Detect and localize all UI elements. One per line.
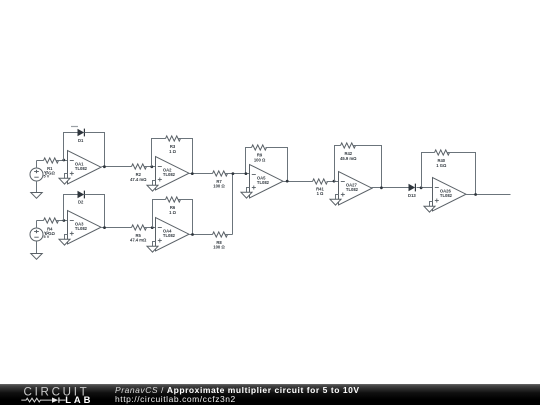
ground below V1 [31, 193, 42, 199]
label R1 value [45, 166, 56, 176]
svg-text:1 GΩ: 1 GΩ [436, 163, 447, 168]
svg-text:100 Ω: 100 Ω [254, 157, 266, 162]
wire R5 to OA4 inverting input [145, 227, 156, 229]
wire R8 branch up to summing node [232, 174, 234, 235]
wire V1 to R1 [37, 160, 44, 162]
resistor R42 [341, 143, 356, 148]
junction OA1 output and D1 feedback [103, 165, 106, 168]
label R8 value [213, 240, 225, 250]
wire R9 to OA5 output [266, 148, 288, 182]
wire V2 to R4 [37, 220, 44, 222]
label R4 value [45, 226, 56, 236]
svg-text:5 V: 5 V [44, 175, 50, 179]
label R9 value [254, 153, 266, 163]
resistor R4 [44, 218, 59, 223]
wire V2 top lead [36, 221, 38, 229]
wire V1 bottom lead [36, 181, 38, 193]
ground at OA26 non-inverting input [424, 202, 435, 213]
junction summing node R7 R8 [232, 172, 235, 175]
svg-text:TL082: TL082 [75, 226, 88, 231]
junction node at OA27 inverting input [333, 180, 336, 183]
voltage source V2 [30, 228, 43, 241]
resistor R2 [132, 164, 147, 169]
wire R7 to OA5 inverting input [226, 173, 250, 175]
wire R42 to OA27 output [354, 146, 382, 188]
wire R41 to OA27 inverting input [327, 181, 339, 183]
svg-text:1 Ω: 1 Ω [317, 191, 324, 196]
svg-text:D13: D13 [408, 193, 416, 198]
resistor R8 [213, 232, 228, 237]
wire OA27 output to D13 [372, 187, 409, 189]
wire OA2 output to R7 [189, 173, 213, 175]
ground at OA2 non-inverting input [147, 181, 158, 192]
junction OA4 output and R6 feedback [191, 233, 194, 236]
svg-text:100 Ω: 100 Ω [213, 245, 225, 250]
label R2 value [130, 172, 147, 182]
label R40 value [436, 158, 447, 168]
svg-text:1 Ω: 1 Ω [169, 210, 176, 215]
wire R8 to vertical join [226, 234, 233, 236]
svg-text:1 Ω: 1 Ω [169, 149, 176, 154]
label D1 [78, 138, 84, 143]
wire OA2 feedback left to R3 [152, 139, 166, 167]
label R7 value [213, 179, 225, 189]
label D13 [408, 193, 416, 198]
op-amp OA5 TL082 [250, 165, 284, 198]
junction node at OA4 inverting input [151, 226, 154, 229]
label D2 [78, 200, 84, 205]
resistor R7 [213, 171, 228, 176]
diode D2 [78, 191, 85, 199]
ground at OA5 non-inverting input [241, 188, 252, 199]
svg-text:D2: D2 [78, 200, 84, 205]
junction node at OA3 inverting input [63, 219, 66, 222]
svg-text:LAB: LAB [65, 394, 93, 405]
logo diode [52, 398, 58, 403]
wire OA3 output to R5 [102, 227, 132, 229]
svg-text:TL082: TL082 [163, 233, 176, 238]
wire D1 cathode to OA1 output [85, 133, 105, 167]
resistor R1 [44, 158, 59, 163]
resistor R3 [166, 136, 181, 141]
wire R2 to OA2 inverting input [145, 166, 156, 168]
logo wire with resistor [21, 398, 52, 402]
op-amp OA27 TL082 [339, 172, 373, 205]
wire OA4 output to R8 [190, 234, 213, 236]
resistor R6 [166, 197, 181, 202]
svg-text:D1: D1 [78, 138, 84, 143]
label R42 value [340, 151, 357, 161]
wire OA4 feedback left to R6 [153, 200, 166, 228]
label R6 value [169, 205, 176, 215]
wire OA26 output [466, 194, 511, 196]
ground below V2 [31, 254, 42, 260]
wire R3 to OA2 output [179, 139, 193, 174]
svg-text:100 Ω: 100 Ω [213, 184, 225, 189]
svg-text:TL082: TL082 [346, 187, 359, 192]
label V2 value [44, 231, 50, 239]
wire OA3 feedback left to D2 anode [64, 195, 78, 221]
voltage source V1 [30, 168, 43, 181]
dash marker above D1 [71, 126, 78, 128]
footer title line [115, 385, 360, 395]
CircuitLab logo [0, 384, 100, 405]
junction node at OA2 inverting input [150, 165, 153, 168]
wire OA1 feedback left to D1 anode [64, 133, 78, 161]
wire R6 to OA4 output [179, 200, 193, 235]
wire OA1 output to R2 [102, 166, 132, 168]
svg-text:TL082: TL082 [163, 172, 176, 177]
resistor R40 [435, 150, 450, 155]
wire R1 to OA1 inverting input [57, 160, 68, 162]
op-amp OA1 TL082 [68, 151, 102, 184]
junction node at OA1 inverting input [62, 159, 65, 162]
junction OA3 output and D2 feedback [103, 226, 106, 229]
wire V1 top lead [36, 161, 38, 169]
op-amp OA26 TL082 [433, 178, 467, 211]
junction OA5 output and R9 feedback [286, 180, 289, 183]
junction OA26 output and R40 feedback [474, 193, 477, 196]
svg-text:47.4 mΩ: 47.4 mΩ [130, 238, 147, 243]
junction node at OA26 inverting input [420, 186, 423, 189]
wire OA5 feedback left to R9 [246, 148, 252, 174]
diode D1 [78, 129, 85, 137]
wire OA5 output to R41 [283, 181, 313, 183]
svg-text:5 V: 5 V [44, 235, 50, 239]
label V1 value [44, 171, 50, 179]
svg-text:TL082: TL082 [440, 193, 453, 198]
label R5 value [130, 233, 147, 243]
op-amp OA2 TL082 [156, 157, 190, 190]
label R3 value [169, 144, 176, 154]
footer url line [115, 394, 236, 404]
ground at OA4 non-inverting input [147, 242, 158, 253]
svg-text:45.9 mΩ: 45.9 mΩ [340, 156, 357, 161]
junction OA27 output and R42 feedback [380, 186, 383, 189]
diode D13 [409, 184, 416, 192]
wire OA27 feedback left to R42 [335, 146, 341, 182]
ground at OA1 non-inverting input [59, 174, 70, 185]
svg-text:TL082: TL082 [257, 180, 270, 185]
wire D2 cathode to OA3 output [85, 195, 105, 228]
wire R40 to OA26 output [448, 153, 476, 195]
wire OA26 feedback left to R40 [422, 153, 435, 188]
svg-text:TL082: TL082 [75, 166, 88, 171]
op-amp OA4 TL082 [156, 218, 190, 251]
ground at OA27 non-inverting input [330, 195, 341, 206]
resistor R9 [252, 145, 267, 150]
resistor R5 [132, 225, 147, 230]
label R41 value [316, 186, 324, 196]
ground at OA3 non-inverting input [59, 235, 70, 246]
wire V2 bottom lead [36, 242, 38, 254]
svg-text:47.4 mΩ: 47.4 mΩ [130, 177, 147, 182]
junction OA2 output and R3 feedback [191, 172, 194, 175]
wire D13 cathode to OA26 inverting input [417, 187, 433, 189]
wire R4 to OA3 inverting input [57, 220, 68, 222]
op-amp OA3 TL082 [68, 211, 102, 244]
junction node at OA5 inverting input [245, 172, 248, 175]
resistor R41 [313, 179, 328, 184]
footer bar [0, 384, 540, 405]
